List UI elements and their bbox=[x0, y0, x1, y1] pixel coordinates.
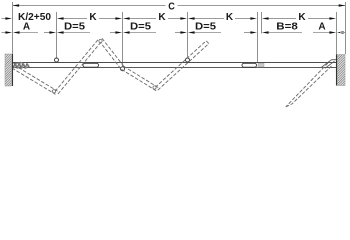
svg-text:D=5: D=5 bbox=[130, 22, 151, 33]
carriage 2 bbox=[242, 63, 257, 67]
svg-text:D=5: D=5 bbox=[195, 22, 216, 33]
spacer block bbox=[258, 63, 264, 67]
left wall hatched bbox=[5, 54, 13, 86]
dimension K/2+50 outside arrow bbox=[2, 18, 7, 20]
guide circle joint2 below track bbox=[121, 67, 125, 71]
dimension C line bbox=[13, 5, 166, 7]
dashed panel 3a (peak to track guide) bbox=[99, 38, 124, 69]
roller circle joint1 bbox=[55, 58, 59, 62]
dashed panel 1 (wall to valley1) bbox=[12, 65, 58, 94]
extension line B gap x=261.5 bbox=[261, 12, 263, 34]
svg-text:D=5: D=5 bbox=[64, 22, 85, 33]
folded panel stack spring at left wall bbox=[14, 62, 21, 64]
extension line left wall face x=12.5 bbox=[12, 2, 14, 54]
svg-text:A: A bbox=[318, 22, 325, 33]
dashed panel 4 (valley2 to free tip) bbox=[155, 41, 209, 90]
right pivot bracket solid bbox=[322, 60, 332, 67]
dashed panel 3b (track guide to valley2) bbox=[122, 66, 159, 91]
dashed panel 2 (valley1 to peak) bbox=[55, 39, 102, 94]
extension line right wall x=345.5 bbox=[345, 2, 347, 54]
dimension C left arrow bbox=[13, 4, 20, 6]
svg-text:C: C bbox=[168, 2, 175, 13]
track top line bbox=[13, 62, 337, 64]
extension line joint 3 x=187.5 bbox=[187, 12, 189, 58]
svg-text:A: A bbox=[23, 22, 30, 33]
carriage 1 bbox=[83, 63, 99, 67]
right pivot panel dashed (to lower tip) bbox=[286, 63, 332, 107]
dimension D=5 second arrows bbox=[110, 32, 117, 34]
dimension D=5 third arrows bbox=[175, 32, 182, 34]
hinge circle valley2 bbox=[153, 86, 156, 89]
track bottom line bbox=[13, 67, 337, 69]
svg-text:B=8: B=8 bbox=[276, 22, 298, 33]
extension line joint 4 x=257.5 bbox=[257, 12, 259, 62]
dimension D=5 first arrows bbox=[44, 32, 51, 34]
svg-text:K: K bbox=[226, 12, 234, 23]
dimension K3 line and arrows bbox=[188, 17, 195, 19]
svg-text:K: K bbox=[298, 12, 306, 23]
hinge circle peak bbox=[99, 39, 102, 42]
extension line joint 1 x=56.5 bbox=[56, 12, 58, 58]
dimension A left arrows bbox=[2, 32, 7, 34]
right wall hatched bbox=[337, 55, 346, 86]
dimension K2 line and arrows bbox=[123, 17, 130, 19]
dimension K1 line and arrows bbox=[57, 17, 64, 19]
svg-text:K: K bbox=[89, 12, 97, 23]
roller circle joint3 bbox=[186, 58, 190, 62]
dimension K4 line and arrows bbox=[262, 17, 269, 19]
hinge circle valley1 bbox=[52, 90, 55, 93]
extension line joint 2 x=122.5 bbox=[122, 12, 124, 67]
dimension B=8 arrows bbox=[244, 32, 252, 34]
dimension C right arrow bbox=[339, 4, 346, 6]
extension line joint 5 x=336.5 bbox=[336, 12, 338, 60]
dimension A right arrows bbox=[313, 32, 330, 34]
svg-text:K: K bbox=[158, 12, 166, 23]
